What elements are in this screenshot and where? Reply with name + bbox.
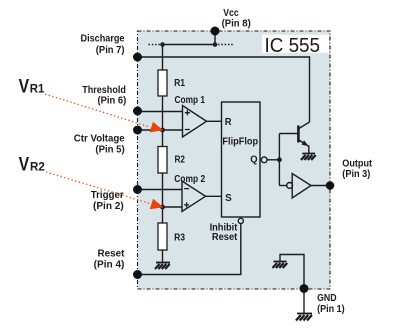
svg-text:V: V xyxy=(19,76,30,98)
svg-text:Threshold: Threshold xyxy=(82,85,126,96)
svg-text:Vcc: Vcc xyxy=(223,8,239,19)
transistor emitter lead xyxy=(299,140,309,147)
resistor R2 xyxy=(158,147,167,174)
wire base xyxy=(279,133,297,135)
svg-text:R3: R3 xyxy=(174,232,185,243)
svg-text:V: V xyxy=(19,154,30,176)
Vcc pin dot (Pin 8) xyxy=(211,27,220,36)
wire divider to Comp2 plus input xyxy=(163,206,183,208)
node VR1 label xyxy=(19,76,45,98)
inverter buffer xyxy=(292,174,311,199)
Threshold pin dot (Pin 6) xyxy=(133,107,142,116)
op-amp Comp 1 xyxy=(183,106,207,138)
Ctr Voltage pin dot (Pin 5) xyxy=(133,126,142,135)
svg-text:Reset: Reset xyxy=(98,248,126,259)
ground at emitter xyxy=(301,154,316,161)
svg-text:(Pin 6): (Pin 6) xyxy=(98,96,127,107)
transistor collector lead xyxy=(299,122,310,129)
wire Q to node xyxy=(267,159,279,161)
junction divider R2/R3 node xyxy=(160,205,165,210)
svg-text:Q: Q xyxy=(250,155,258,166)
wire trigger to Comp2 minus input xyxy=(138,189,183,191)
wire threshold to Comp1 plus input xyxy=(138,111,183,113)
wire GND external xyxy=(303,289,305,314)
svg-text:FlipFlop: FlipFlop xyxy=(222,136,258,147)
svg-text:IC 555: IC 555 xyxy=(265,34,321,57)
Discharge pin dot (Pin 7) xyxy=(133,53,142,62)
inhibit reset bubble xyxy=(238,218,243,223)
wire top rail dotted left xyxy=(149,44,161,46)
Reset pin dot (Pin 4) xyxy=(133,270,142,279)
wire emitter to ground xyxy=(308,146,310,154)
junction top rail at R1 xyxy=(160,42,165,47)
wire R3 to ground xyxy=(162,250,164,263)
svg-text:(Pin 7): (Pin 7) xyxy=(96,45,125,56)
wire rail to R1 xyxy=(162,45,164,71)
svg-text:R1: R1 xyxy=(30,82,45,96)
svg-text:(Pin 3): (Pin 3) xyxy=(342,169,370,180)
inverter input bubble xyxy=(287,183,293,189)
resistor R1 xyxy=(158,70,167,96)
transistor emitter arrowhead xyxy=(302,140,309,146)
junction Q node xyxy=(277,157,282,162)
VR2 pointer dotted arrow xyxy=(46,172,164,209)
op-amp Comp 2 xyxy=(182,181,206,212)
svg-text:R2: R2 xyxy=(30,160,45,174)
junction top rail at Vcc xyxy=(213,42,218,47)
wire inverter to output xyxy=(311,185,330,187)
wire Q node to inverter xyxy=(279,185,286,187)
svg-text:Reset: Reset xyxy=(212,232,238,243)
ground under R3 xyxy=(155,263,170,270)
wire R1 to R2 xyxy=(162,96,164,147)
flip-flop U1 xyxy=(222,102,261,217)
svg-text:R: R xyxy=(225,117,233,128)
svg-text:(Pin 2): (Pin 2) xyxy=(93,201,124,212)
svg-text:Output: Output xyxy=(342,158,372,169)
IC 555 outline box xyxy=(138,31,331,289)
wire Q node vertical xyxy=(278,134,280,186)
resistor R3 xyxy=(158,223,167,250)
svg-text:(Pin 8): (Pin 8) xyxy=(222,19,251,30)
node VR2 label xyxy=(19,154,45,176)
wire discharge to collector xyxy=(138,57,310,122)
wire GND internal xyxy=(280,255,304,289)
Trigger pin dot (Pin 2) xyxy=(133,185,142,194)
wire Comp2 output to S xyxy=(206,195,223,197)
transistor Q1 base bar xyxy=(297,126,300,143)
Output pin dot (Pin 3) xyxy=(326,181,335,190)
wire Comp1 output to R xyxy=(207,120,223,122)
svg-text:(Pin 4): (Pin 4) xyxy=(94,260,125,271)
wire R2 to R3 xyxy=(162,173,164,223)
svg-text:(Pin 5): (Pin 5) xyxy=(95,144,124,155)
svg-text:R2: R2 xyxy=(175,154,186,165)
ground external xyxy=(296,314,312,321)
IC 555 label background xyxy=(262,35,329,53)
wire top rail dotted right xyxy=(218,44,234,46)
wire ctr voltage to Comp1 minus input xyxy=(138,129,183,131)
ground internal xyxy=(273,262,288,269)
Q output bubble xyxy=(261,157,267,163)
svg-text:S: S xyxy=(225,193,232,204)
wire top rail xyxy=(163,44,216,46)
VR1 pointer dotted arrow xyxy=(45,94,163,132)
wire inhibit to reset pin xyxy=(138,224,241,275)
junction divider R1/R2 node xyxy=(160,128,165,133)
svg-text:Ctr Voltage: Ctr Voltage xyxy=(74,134,125,145)
svg-text:Comp 2: Comp 2 xyxy=(174,174,205,185)
wire Vcc stub xyxy=(214,31,216,45)
GND pin dot (Pin 1) xyxy=(300,284,309,293)
svg-text:Trigger: Trigger xyxy=(91,190,124,201)
svg-text:(Pin 1): (Pin 1) xyxy=(317,304,345,315)
svg-text:GND: GND xyxy=(317,293,337,304)
svg-text:R1: R1 xyxy=(174,78,185,89)
svg-text:Discharge: Discharge xyxy=(81,34,125,45)
svg-text:Comp 1: Comp 1 xyxy=(175,95,206,106)
